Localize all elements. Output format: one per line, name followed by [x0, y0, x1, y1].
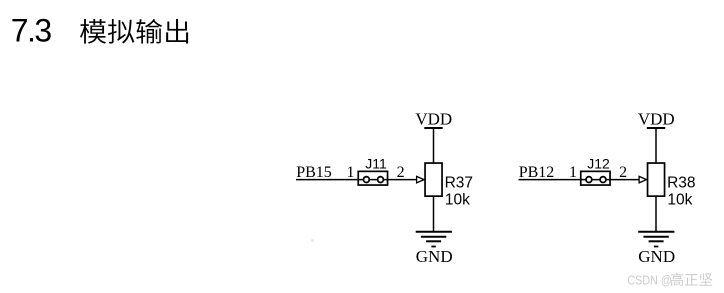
svg-text:PB12: PB12	[519, 164, 555, 181]
svg-text:10k: 10k	[445, 191, 470, 208]
wire inside connector J11	[357, 179, 388, 181]
svg-text:2: 2	[397, 164, 405, 181]
wire connector J12 pin 2 to resistor R38	[611, 179, 640, 181]
connector J12 pin 2 pad	[600, 177, 606, 183]
svg-text:7.3: 7.3	[11, 12, 52, 48]
wire connector J11 pin 2 to resistor R37	[388, 179, 417, 181]
faint artifact dot	[311, 239, 314, 242]
svg-text:J12: J12	[587, 155, 610, 171]
svg-text:CSDN @: CSDN @	[627, 272, 672, 287]
svg-text:VDD: VDD	[415, 110, 452, 129]
resistor R37 body	[425, 163, 442, 196]
power VDD symbol bar	[424, 127, 442, 129]
connector J11 pin 1 pad	[364, 177, 370, 183]
connector J12 body	[581, 171, 610, 185]
svg-text:2: 2	[619, 164, 627, 181]
watermark author name 高正坚	[671, 273, 713, 286]
connector J11 pin 2 pad	[378, 177, 384, 183]
svg-text:J11: J11	[365, 155, 387, 171]
wire resistor R38 to ground	[655, 197, 657, 232]
connector J12 pin 1 pad	[586, 177, 592, 183]
svg-text:10k: 10k	[667, 191, 692, 208]
power VDD symbol bar	[647, 127, 665, 129]
heading title text 模拟输出	[80, 19, 188, 44]
wire VDD to resistor R37	[433, 128, 435, 163]
ground symbol (R37 branch)	[416, 232, 452, 247]
ground symbol (R38 branch)	[638, 232, 674, 247]
svg-text:R38: R38	[667, 175, 695, 192]
wire net PB15 to connector J11 pin 1	[296, 179, 357, 181]
svg-text:GND: GND	[638, 247, 675, 266]
svg-text:R37: R37	[445, 175, 473, 192]
wire resistor R37 to ground	[433, 197, 435, 232]
resistor R38 body	[648, 163, 665, 196]
svg-text:1: 1	[569, 164, 577, 181]
svg-text:1: 1	[347, 164, 355, 181]
connector J11 body	[358, 171, 387, 185]
svg-text:PB15: PB15	[296, 164, 332, 181]
wire VDD to resistor R38	[655, 128, 657, 163]
signal arrow into resistor R38	[639, 176, 646, 183]
wire inside connector J12	[580, 179, 611, 181]
wire net PB12 to connector J12 pin 1	[519, 179, 580, 181]
svg-text:VDD: VDD	[638, 110, 675, 129]
signal arrow into resistor R37	[417, 176, 424, 183]
svg-text:GND: GND	[416, 247, 453, 266]
